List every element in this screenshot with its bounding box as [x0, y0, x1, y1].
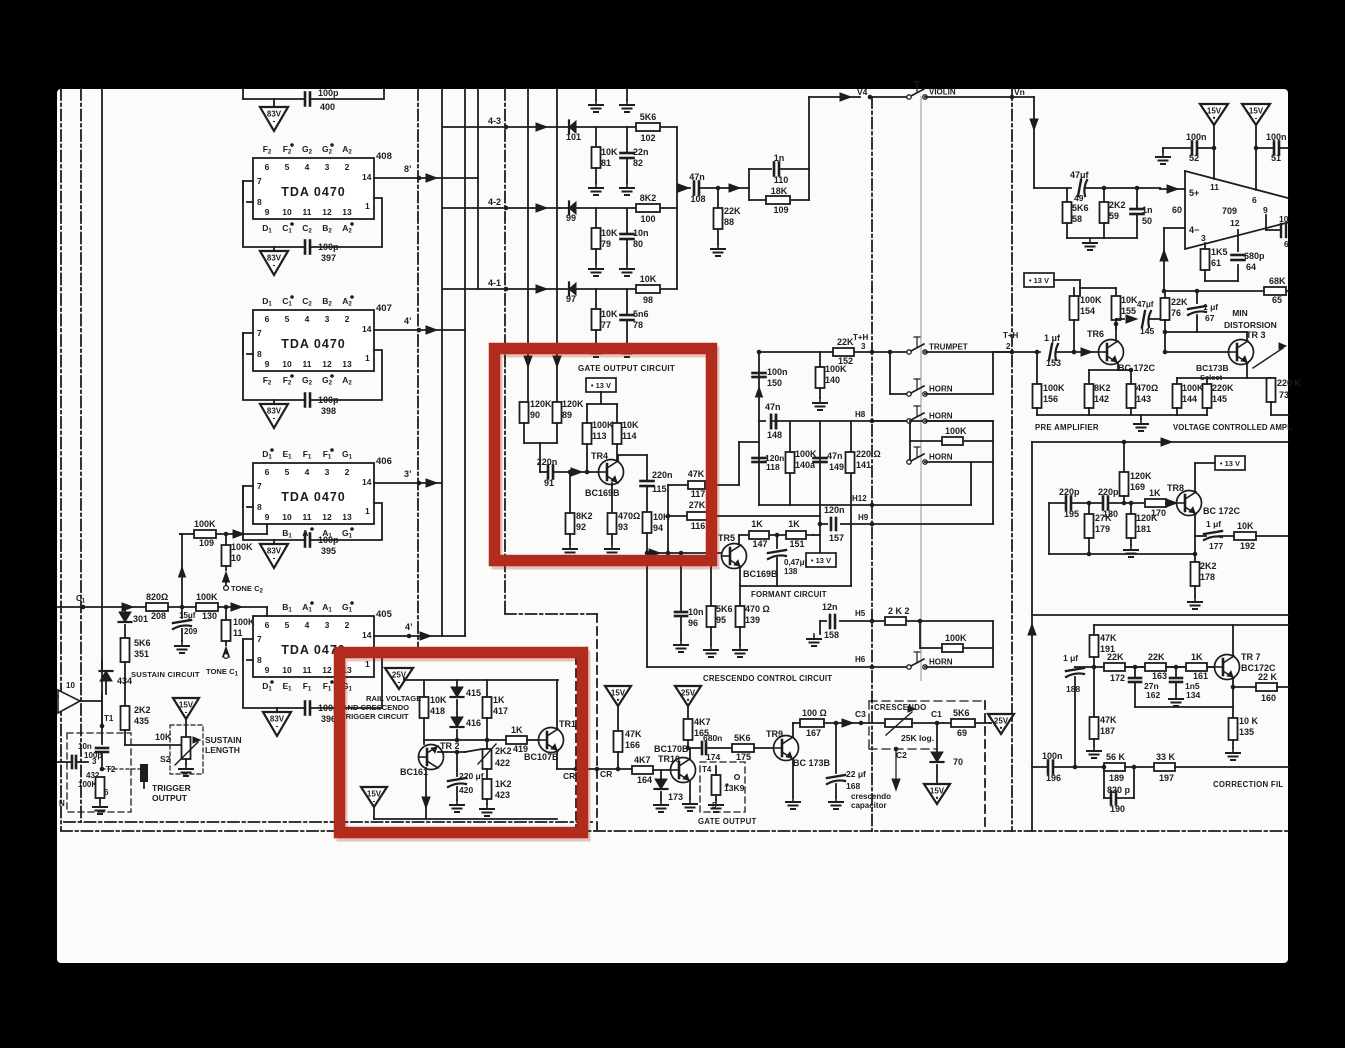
- potentiometer 25K log: [885, 719, 912, 727]
- svg-text:4: 4: [305, 314, 310, 324]
- wire H12 row: [759, 504, 971, 506]
- svg-text:100K: 100K: [1080, 295, 1102, 305]
- capacitor 15uf 209: [181, 607, 183, 618]
- svg-text:1K: 1K: [1191, 652, 1203, 662]
- svg-text:8: 8: [257, 502, 262, 512]
- svg-text:99: 99: [566, 213, 576, 223]
- wire C1 row: [58, 606, 267, 608]
- svg-text:12n: 12n: [822, 602, 838, 612]
- resistor 100K 130: [196, 603, 218, 611]
- svg-text:TR 2: TR 2: [440, 741, 460, 751]
- svg-text:120K: 120K: [1130, 471, 1152, 481]
- wire to sustain pot: [125, 744, 186, 746]
- svg-text:0,47μf: 0,47μf: [784, 558, 807, 567]
- wire Vn down to preamp input: [1033, 97, 1035, 188]
- svg-text:113: 113: [592, 431, 607, 441]
- svg-text:TRIGGER CIRCUIT: TRIGGER CIRCUIT: [341, 712, 409, 721]
- left dash-dot boundary line 2: [80, 89, 82, 822]
- parallel RC block 1n110 / 18K109: [748, 169, 750, 200]
- resistor 100K 154: [1070, 296, 1079, 320]
- svg-text:189: 189: [1109, 773, 1124, 783]
- resistor 22K 163: [1145, 663, 1166, 671]
- svg-text:13: 13: [342, 359, 352, 369]
- ground below 96: [680, 640, 682, 645]
- resistor 27K 116: [687, 512, 707, 520]
- svg-text:64: 64: [1246, 262, 1256, 272]
- svg-text:188: 188: [1066, 684, 1080, 694]
- svg-text:89: 89: [562, 410, 572, 420]
- svg-text:PRE AMPLIFIER: PRE AMPLIFIER: [1035, 423, 1099, 432]
- wire trumpet to T+H2: [925, 351, 1012, 353]
- wire IC left pin loop: [243, 181, 305, 247]
- wire TR10 collector: [689, 748, 691, 759]
- svg-text:108: 108: [690, 194, 705, 204]
- resistor 100K 11 tone: [224, 605, 229, 610]
- wire 13V down to rail: [600, 392, 602, 404]
- svg-text:100p: 100p: [318, 88, 339, 98]
- top stub ground A: [595, 89, 597, 100]
- output wire 4' from IC407 pin14: [374, 329, 465, 331]
- svg-text:470 Ω: 470 Ω: [745, 604, 770, 614]
- svg-text:102: 102: [640, 133, 655, 143]
- svg-text:141: 141: [856, 460, 871, 470]
- svg-text:10K: 10K: [622, 420, 639, 430]
- svg-text:3: 3: [92, 757, 97, 766]
- resistor 10K 155: [1112, 296, 1121, 320]
- svg-text:69: 69: [957, 728, 967, 738]
- svg-text:56 K: 56 K: [1106, 752, 1126, 762]
- svg-text:100K: 100K: [196, 592, 218, 602]
- red highlight rectangle RAIL VOLTAGE CIRCUIT: [342, 656, 585, 836]
- svg-text:3: 3: [1201, 233, 1206, 243]
- svg-text:-: -: [1255, 114, 1258, 123]
- svg-text:100K: 100K: [231, 542, 253, 552]
- wire trumpet T+H to preamp: [1012, 351, 1040, 353]
- resistor 8K2 92: [569, 472, 571, 513]
- svg-text:10: 10: [282, 207, 292, 217]
- arrow down from C2: [895, 749, 897, 790]
- wire to 47uf 49: [1034, 187, 1071, 189]
- svg-text:3: 3: [325, 162, 330, 172]
- resistor 5K6 351: [121, 638, 130, 662]
- supply box +13V TR8: [1215, 456, 1245, 470]
- wire gate output to TR5 base: [647, 552, 722, 554]
- capacitor 120n 157: [828, 516, 840, 532]
- resistor 22K 76: [1164, 291, 1166, 298]
- supply box +13V gate: [586, 378, 616, 392]
- svg-text:5K6: 5K6: [953, 708, 970, 718]
- svg-text:-: -: [273, 261, 276, 270]
- resistor 10K 79: [592, 228, 601, 249]
- svg-text:11: 11: [303, 665, 312, 675]
- svg-text:6: 6: [265, 620, 270, 630]
- svg-text:154: 154: [1080, 306, 1095, 316]
- resistor 2K2 178: [1194, 536, 1196, 562]
- ground below 187: [1093, 746, 1095, 751]
- svg-text:10K: 10K: [601, 228, 618, 238]
- resistor 18K 109: [749, 199, 766, 201]
- capacitor 47n 149: [814, 457, 827, 460]
- capacitor 47n 148: [770, 415, 773, 428]
- IC TDA0470 406 box: [253, 463, 374, 524]
- svg-text:118: 118: [766, 462, 780, 472]
- svg-text:HORN: HORN: [929, 658, 953, 667]
- svg-text:142: 142: [1094, 394, 1109, 404]
- svg-text:5: 5: [285, 162, 290, 172]
- wire column to resistor 77: [595, 289, 597, 309]
- svg-text:163: 163: [1152, 671, 1167, 681]
- svg-text:22n: 22n: [633, 147, 649, 157]
- resistor 5K6 69: [951, 719, 975, 727]
- svg-text:BC169B: BC169B: [585, 488, 620, 498]
- svg-text:VIOLIN: VIOLIN: [929, 88, 956, 97]
- resistor 100K horn1: [909, 421, 911, 441]
- wire TR9 emitter ground: [792, 759, 794, 797]
- IC TDA0470 407 box: [253, 310, 374, 371]
- svg-text:1 μf: 1 μf: [1063, 653, 1078, 663]
- supply triangle 15V+ op: [1200, 104, 1228, 125]
- wire TR6 emitter: [1117, 363, 1119, 370]
- svg-text:•: •: [1213, 114, 1216, 123]
- svg-text:1K: 1K: [1149, 488, 1161, 498]
- svg-text:68K: 68K: [1269, 276, 1286, 286]
- svg-text:TDA 0470: TDA 0470: [281, 490, 346, 504]
- wire right collector bus of gate rows: [676, 127, 678, 289]
- svg-text:73: 73: [1279, 390, 1289, 400]
- svg-text:190: 190: [1110, 804, 1125, 814]
- svg-text:1K: 1K: [493, 695, 505, 705]
- svg-text:10: 10: [282, 359, 292, 369]
- svg-text:416: 416: [466, 718, 481, 728]
- svg-text:96: 96: [688, 618, 698, 628]
- svg-text:5K6: 5K6: [734, 733, 751, 743]
- wire column to capacitor 78: [626, 289, 628, 315]
- svg-text:50: 50: [1142, 216, 1152, 226]
- resistor 5K6 58: [1063, 202, 1072, 223]
- wire TR8 base row: [1049, 502, 1066, 504]
- capacitor 22uf 168: [834, 721, 839, 726]
- svg-text:100: 100: [640, 214, 655, 224]
- capacitor 100p 398: [304, 394, 307, 407]
- right dash-dot section boundary x=872: [871, 97, 873, 831]
- svg-text:4K7: 4K7: [634, 755, 651, 765]
- svg-text:TR9: TR9: [766, 729, 783, 739]
- dashed vertical x=985 crescendo boundary: [984, 701, 986, 831]
- wire TR5 emitter: [739, 567, 741, 586]
- wire rail top: [403, 678, 405, 680]
- svg-text:RAIL VOLTAGE: RAIL VOLTAGE: [366, 694, 421, 703]
- transistor TR10 BC170B: [671, 758, 696, 783]
- wire TR7 emitter to 22K160: [1232, 678, 1234, 687]
- wire TR1 emitter to CR: [556, 751, 558, 769]
- svg-text:TR5: TR5: [718, 533, 735, 543]
- svg-text:5K6: 5K6: [1072, 203, 1089, 213]
- svg-text:5: 5: [285, 467, 290, 477]
- dashed vertical boundary x=576: [575, 656, 577, 831]
- svg-text:BC169B: BC169B: [743, 569, 778, 579]
- svg-text:90: 90: [530, 410, 540, 420]
- svg-text:148: 148: [767, 430, 782, 440]
- svg-text:TR6: TR6: [1087, 329, 1104, 339]
- svg-text:680n: 680n: [703, 733, 722, 743]
- ground below 134: [1175, 694, 1177, 699]
- svg-text:417: 417: [493, 706, 508, 716]
- wire H6 row: [872, 666, 909, 668]
- svg-text:138: 138: [784, 567, 798, 576]
- supply triangle 25V crescendo: [675, 686, 701, 706]
- resistor 100K 156: [1036, 352, 1038, 384]
- svg-text:1 μf: 1 μf: [1206, 519, 1221, 529]
- svg-text:145: 145: [1140, 326, 1154, 336]
- trumpet row wire: [759, 351, 909, 353]
- capacitor 100p 396: [304, 702, 307, 715]
- svg-text:15μf: 15μf: [179, 611, 196, 620]
- resistor 22K 152: [833, 348, 854, 356]
- diode 416: [451, 717, 463, 727]
- svg-text:BC170B: BC170B: [654, 744, 689, 754]
- svg-text:709: 709: [1222, 206, 1237, 216]
- svg-text:-: -: [185, 708, 188, 717]
- wire correction top rail: [1032, 614, 1288, 616]
- svg-text:220p: 220p: [1059, 487, 1080, 497]
- wire violin to Vn: [925, 96, 1034, 98]
- svg-text:10: 10: [282, 512, 292, 522]
- svg-text:14: 14: [362, 324, 372, 334]
- svg-text:13: 13: [342, 207, 352, 217]
- ground below 135: [1232, 748, 1234, 753]
- wire TR10 emitter ground: [689, 781, 691, 799]
- svg-text:11: 11: [303, 207, 312, 217]
- wire H8 row: [759, 420, 993, 422]
- svg-text:2K2: 2K2: [1200, 561, 1217, 571]
- wire 61/64 bottom loop: [1205, 280, 1238, 282]
- svg-text:TONE C2: TONE C2: [231, 584, 264, 595]
- capacitor 100p 395: [304, 534, 307, 547]
- svg-text:167: 167: [806, 728, 821, 738]
- svg-text:4’: 4’: [405, 622, 413, 632]
- svg-text:67: 67: [1205, 313, 1215, 323]
- svg-text:5+: 5+: [1189, 188, 1199, 198]
- ground below 423: [486, 804, 488, 809]
- svg-text:220n: 220n: [652, 470, 673, 480]
- svg-text:TR1: TR1: [559, 719, 576, 729]
- ground below capacitor 80: [626, 264, 628, 269]
- svg-text:5K6: 5K6: [716, 604, 733, 614]
- svg-text:470Ω: 470Ω: [1136, 383, 1158, 393]
- wire 117/116 left column: [667, 485, 669, 553]
- resistor 100K 144: [1176, 378, 1178, 384]
- svg-text:HORN: HORN: [929, 412, 953, 421]
- wire IC left pin loop: [243, 486, 305, 540]
- svg-text:220n: 220n: [537, 457, 558, 467]
- resistor 27K 179: [1088, 503, 1090, 514]
- svg-text:2: 2: [345, 620, 350, 630]
- svg-text:1: 1: [365, 353, 370, 363]
- capacitor 1n 50: [1131, 208, 1144, 211]
- svg-text:208: 208: [151, 611, 166, 621]
- svg-text:-: -: [273, 554, 276, 563]
- svg-text:22K: 22K: [837, 337, 854, 347]
- svg-text:93: 93: [618, 522, 628, 532]
- wire vca top rail: [1032, 441, 1288, 443]
- ground below 22K 88: [717, 244, 719, 249]
- left vertical bus wire: [101, 89, 103, 723]
- ground below 209: [181, 641, 183, 646]
- svg-text:59: 59: [1109, 211, 1119, 221]
- wire 208 node up to 109 row: [181, 534, 183, 607]
- wire TR1 collector: [556, 680, 558, 729]
- svg-text:H12: H12: [852, 494, 867, 503]
- svg-text:1: 1: [365, 201, 370, 211]
- svg-text:149: 149: [829, 462, 844, 472]
- capacitor 10n 80: [621, 233, 634, 236]
- svg-text:13: 13: [342, 512, 352, 522]
- capacitor 680n 174: [701, 742, 704, 754]
- wire TR7 feedback row: [1135, 706, 1233, 708]
- svg-text:406: 406: [376, 456, 392, 467]
- bottom dash-dot boundary main: [61, 830, 1288, 832]
- svg-text:GATE OUTPUT: GATE OUTPUT: [698, 817, 757, 826]
- capacitor 100n 196: [1047, 761, 1050, 774]
- ground below 181: [1130, 545, 1132, 550]
- svg-text:81: 81: [601, 158, 611, 168]
- svg-text:120n: 120n: [824, 505, 845, 515]
- svg-text:5n6: 5n6: [633, 309, 649, 319]
- svg-text:58: 58: [1072, 214, 1082, 224]
- bottom dash-dot boundary upper: [64, 821, 592, 823]
- svg-text:10 K: 10 K: [1239, 716, 1259, 726]
- svg-text:415: 415: [466, 688, 481, 698]
- ground below 173: [660, 800, 662, 805]
- svg-text:398: 398: [321, 406, 336, 416]
- supply box +13V preamp: [1024, 273, 1054, 287]
- transistor TR9 BC173B: [774, 736, 799, 761]
- diode 97: [569, 283, 576, 295]
- svg-text:91: 91: [544, 478, 554, 488]
- svg-text:470Ω: 470Ω: [618, 511, 640, 521]
- capacitor 47uf 49: [1078, 180, 1081, 196]
- svg-text:12: 12: [322, 512, 332, 522]
- wire TR3 base row: [1165, 351, 1229, 353]
- svg-text:T+H: T+H: [1003, 331, 1019, 340]
- svg-text:10: 10: [231, 553, 241, 563]
- svg-text:TR4: TR4: [591, 451, 608, 461]
- svg-text:220 Ω: 220 Ω: [856, 449, 881, 459]
- svg-text:2K2: 2K2: [1109, 200, 1126, 210]
- resistor 5K6 102: [636, 123, 660, 131]
- capacitor 1n 110: [773, 163, 776, 176]
- svg-text:97: 97: [566, 294, 576, 304]
- IC TDA0470 408 box: [253, 158, 374, 219]
- resistor 4K7 165: [687, 706, 689, 719]
- svg-text:BC 172C: BC 172C: [1118, 363, 1156, 373]
- svg-text:196: 196: [1046, 773, 1061, 783]
- svg-text:SUSTAIN CIRCUIT: SUSTAIN CIRCUIT: [131, 670, 200, 679]
- svg-text:5: 5: [285, 314, 290, 324]
- dash-dot segment inside box2: [418, 655, 560, 657]
- wire right loop verticals horn top: [992, 421, 994, 524]
- wire TR6 collector output right: [1116, 318, 1124, 320]
- svg-text:8: 8: [257, 349, 262, 359]
- svg-text:22K: 22K: [1148, 652, 1165, 662]
- dashed crescendo pot boundary: [868, 701, 870, 749]
- svg-text:14: 14: [362, 477, 372, 487]
- svg-text:11: 11: [233, 628, 243, 638]
- diode 301 column: [123, 605, 128, 610]
- ground below 92: [569, 544, 571, 549]
- svg-text:H6: H6: [855, 655, 866, 664]
- svg-text:7: 7: [257, 176, 262, 186]
- svg-text:27K: 27K: [1095, 513, 1112, 523]
- wire up to violin line: [808, 97, 810, 169]
- svg-text:1n: 1n: [774, 153, 785, 163]
- svg-text:82: 82: [633, 158, 643, 168]
- svg-text:92: 92: [576, 522, 586, 532]
- ground below 139: [739, 645, 741, 650]
- svg-text:153: 153: [1046, 358, 1061, 368]
- wire link column x=739: [738, 442, 740, 485]
- resistor 1K 147: [749, 531, 769, 539]
- svg-text:109: 109: [199, 538, 214, 548]
- svg-text:80: 80: [633, 239, 643, 249]
- trigger plug symbol: [102, 768, 141, 770]
- svg-text:4: 4: [305, 162, 310, 172]
- svg-text:AND CRESCENDO: AND CRESCENDO: [342, 703, 409, 712]
- svg-text:2: 2: [345, 162, 350, 172]
- svg-text:395: 395: [321, 546, 336, 556]
- svg-text:220 μf: 220 μf: [459, 771, 484, 781]
- wire 68K row: [1164, 290, 1288, 292]
- svg-text:DISTORSION: DISTORSION: [1224, 320, 1277, 330]
- resistor 1K 419: [506, 736, 527, 744]
- svg-text:139: 139: [745, 615, 760, 625]
- svg-text:crescendo: crescendo: [851, 792, 891, 801]
- svg-text:4: 4: [305, 467, 310, 477]
- diode 415: [456, 680, 458, 687]
- svg-text:T+H: T+H: [853, 333, 869, 342]
- svg-text:FORMANT CIRCUIT: FORMANT CIRCUIT: [751, 590, 827, 599]
- wire TR3 collector: [1246, 332, 1248, 341]
- wire H5 row: [820, 620, 993, 622]
- resistor 100K 140col: [819, 351, 821, 353]
- resistor 22K 172: [1104, 663, 1125, 671]
- svg-text:220p: 220p: [1098, 487, 1119, 497]
- supply box +13V formant: [813, 534, 820, 536]
- svg-text:Vn: Vn: [1014, 87, 1025, 97]
- wire column to capacitor 80: [626, 208, 628, 234]
- capacitor 1uf 177: [1204, 531, 1222, 534]
- resistor 10K 418: [423, 680, 425, 697]
- svg-text:10K: 10K: [640, 274, 657, 284]
- svg-text:405: 405: [376, 609, 393, 620]
- capacitor 1uf 153: [1049, 344, 1052, 360]
- svg-text:4: 4: [305, 620, 310, 630]
- ground below 420: [456, 800, 458, 805]
- resistor 100K 10 tone: [224, 532, 229, 537]
- svg-text:22 μf: 22 μf: [846, 769, 866, 779]
- resistor 100K 109: [180, 533, 194, 535]
- svg-text:1K: 1K: [788, 519, 800, 529]
- svg-text:209: 209: [184, 627, 198, 636]
- arrow down on bus x=557: [553, 356, 561, 367]
- capacitor 10n 96: [680, 553, 682, 612]
- svg-text:47n: 47n: [765, 402, 781, 412]
- capacitor 1uf 188: [1074, 666, 1076, 668]
- svg-text:12: 12: [1230, 218, 1240, 228]
- transistor TR4 BC169B: [599, 460, 624, 485]
- svg-text:27K: 27K: [689, 500, 706, 510]
- svg-text:175: 175: [736, 752, 751, 762]
